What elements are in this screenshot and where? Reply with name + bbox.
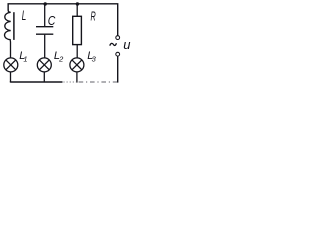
- svg-text:C: C: [48, 13, 56, 28]
- wire L3 bottom: [76, 72, 78, 83]
- lamp L2: [37, 58, 51, 72]
- inductor L coil: [4, 10, 10, 59]
- terminal upper: [116, 36, 120, 40]
- node junction R top: [76, 2, 79, 5]
- wire right lower: [117, 56, 119, 82]
- label L1: [19, 50, 27, 63]
- wire R lower: [76, 45, 78, 58]
- svg-text:3: 3: [92, 55, 97, 64]
- label ~: [110, 43, 117, 46]
- wire L1 bottom: [10, 72, 12, 82]
- wire cap lower: [44, 35, 46, 58]
- svg-text:L: L: [22, 7, 27, 23]
- svg-text:2: 2: [58, 54, 64, 63]
- wire R upper: [76, 4, 78, 17]
- wire L2 bottom: [43, 72, 45, 82]
- terminal lower: [116, 52, 120, 56]
- capacitor C plate 1: [36, 26, 53, 28]
- resistor R: [73, 16, 82, 44]
- label L2: [54, 50, 64, 63]
- label L3: [87, 50, 96, 63]
- inductor core bar: [13, 12, 15, 40]
- wire cap upper: [44, 4, 46, 26]
- svg-text:1: 1: [23, 54, 27, 63]
- wire top bus: [8, 4, 118, 36]
- wire bottom bus solid: [11, 81, 63, 84]
- capacitor C plate 2: [36, 33, 53, 35]
- lamp L1: [4, 58, 18, 72]
- wire bottom bus dotted: [64, 81, 77, 83]
- lamp L3: [70, 58, 84, 72]
- svg-text:R: R: [91, 8, 96, 23]
- node junction cap top: [44, 2, 47, 5]
- svg-text:u: u: [123, 37, 130, 52]
- wire bottom bus dashed: [79, 81, 118, 83]
